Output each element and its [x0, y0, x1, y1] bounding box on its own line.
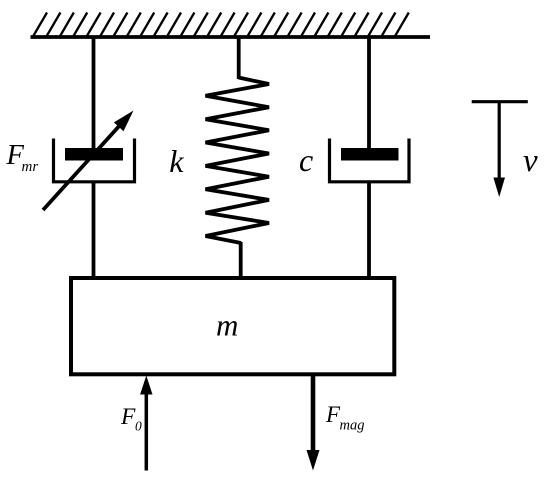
damper c cylinder (cup) — [330, 139, 410, 182]
wire: middle rod lower (spring to mass) — [239, 242, 243, 278]
wire: right rod lower (damper to mass) — [367, 181, 371, 278]
wire: middle rod upper (ceiling to spring) — [237, 37, 241, 79]
svg-text:F: F — [120, 404, 136, 430]
svg-text:k: k — [169, 143, 184, 179]
velocity reference bar — [472, 100, 528, 103]
svg-text:c: c — [299, 142, 313, 178]
fixed ceiling line — [31, 35, 431, 39]
svg-text:mr: mr — [22, 159, 39, 175]
spring k — [206, 78, 270, 244]
force arrow F_mag (downward) — [307, 376, 320, 471]
damper c piston — [341, 148, 399, 161]
wire: left rod upper (ceiling to MR damper piston) — [92, 37, 96, 152]
MR damper piston — [65, 148, 123, 161]
MR damper variable arrow — [43, 111, 134, 211]
MR damper cylinder (cup) — [54, 139, 135, 182]
force arrow F0 (upward) — [140, 376, 152, 471]
wire: left rod lower (MR damper to mass) — [92, 181, 96, 278]
mass block m — [71, 278, 394, 374]
svg-text:m: m — [216, 308, 238, 343]
svg-text:0: 0 — [135, 419, 142, 434]
svg-text:mag: mag — [340, 418, 365, 434]
ceiling hatching — [33, 13, 409, 37]
velocity arrow v (downward) — [493, 102, 505, 197]
wire: right rod upper (ceiling to damper piston) — [367, 37, 371, 152]
svg-text:v: v — [523, 143, 538, 179]
